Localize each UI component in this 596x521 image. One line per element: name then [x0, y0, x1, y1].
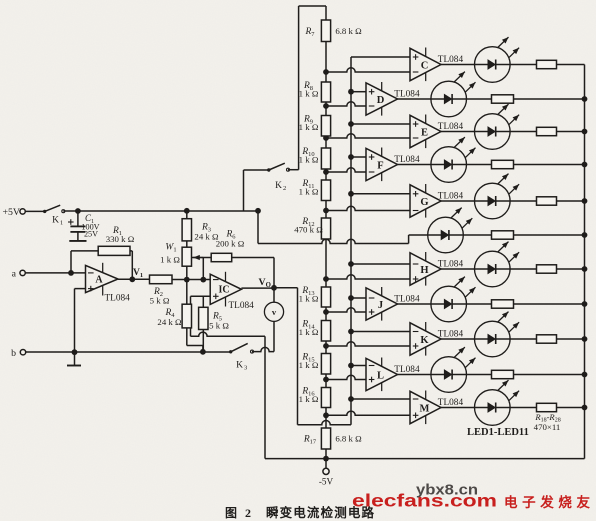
svg-text:G: G [420, 197, 428, 208]
svg-text:6.8 k Ω: 6.8 k Ω [335, 26, 362, 36]
svg-text:TL084: TL084 [394, 365, 420, 375]
svg-text:TL084: TL084 [229, 301, 255, 311]
svg-text:3: 3 [244, 365, 247, 372]
svg-text:E: E [421, 128, 428, 139]
svg-text:470 k Ω: 470 k Ω [294, 224, 323, 234]
svg-text:K: K [52, 216, 59, 226]
svg-text:TL084: TL084 [438, 260, 464, 270]
svg-text:J: J [378, 300, 383, 311]
svg-text:TL084: TL084 [105, 294, 131, 304]
svg-text:IC: IC [218, 285, 229, 296]
svg-text:2: 2 [283, 185, 286, 192]
svg-text:L: L [377, 371, 384, 382]
svg-text:1 k Ω: 1 k Ω [299, 394, 319, 404]
svg-text:+5V: +5V [3, 207, 21, 218]
svg-text:TL084: TL084 [394, 155, 420, 165]
svg-text:1 k Ω: 1 k Ω [299, 327, 319, 337]
svg-text:200 k Ω: 200 k Ω [216, 239, 245, 249]
svg-text:1 k Ω: 1 k Ω [299, 186, 319, 196]
svg-text:TL084: TL084 [438, 330, 464, 340]
svg-text:470×11: 470×11 [534, 422, 561, 432]
svg-text:H: H [420, 265, 428, 276]
svg-text:TL084: TL084 [438, 55, 464, 65]
svg-text:A: A [95, 275, 103, 286]
svg-text:K: K [420, 335, 429, 346]
svg-text:1: 1 [60, 220, 63, 227]
svg-text:330 k Ω: 330 k Ω [106, 234, 135, 244]
svg-text:24 k Ω: 24 k Ω [157, 317, 182, 327]
svg-text:5 k Ω: 5 k Ω [150, 296, 170, 306]
svg-text:M: M [420, 404, 430, 415]
svg-text:TL084: TL084 [394, 90, 420, 100]
svg-text:1 k Ω: 1 k Ω [299, 293, 319, 303]
svg-text:TL084: TL084 [438, 122, 464, 132]
svg-text:1 k Ω: 1 k Ω [160, 255, 180, 265]
svg-text:LED1-LED11: LED1-LED11 [467, 427, 529, 438]
svg-text:1 k Ω: 1 k Ω [299, 360, 319, 370]
svg-text:TL084: TL084 [438, 398, 464, 408]
svg-text:D: D [377, 95, 385, 106]
svg-text:b: b [11, 348, 16, 359]
svg-text:elecfans.com: elecfans.com [352, 491, 497, 511]
svg-text:F: F [377, 161, 383, 172]
svg-text:1 k Ω: 1 k Ω [299, 88, 319, 98]
svg-text:1 k Ω: 1 k Ω [299, 122, 319, 132]
svg-text:C: C [421, 61, 429, 72]
svg-text:25V: 25V [84, 230, 98, 239]
svg-text:-5V: -5V [319, 476, 334, 486]
svg-text:K: K [275, 181, 282, 191]
svg-text:电子发烧友: 电子发烧友 [504, 494, 591, 510]
svg-text:1 k Ω: 1 k Ω [299, 154, 319, 164]
svg-text:5 k Ω: 5 k Ω [209, 321, 229, 331]
svg-text:K: K [236, 361, 243, 371]
svg-text:TL084: TL084 [394, 295, 420, 305]
svg-text:TL084: TL084 [438, 192, 464, 202]
svg-text:6.8 k Ω: 6.8 k Ω [335, 434, 362, 444]
svg-text:a: a [12, 269, 17, 280]
